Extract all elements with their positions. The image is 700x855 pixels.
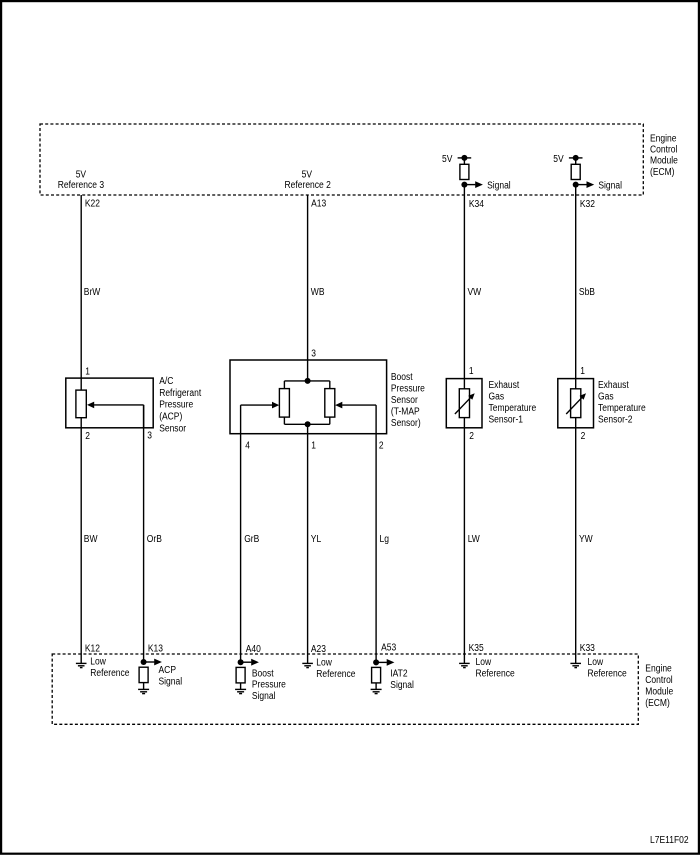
svg-text:Sensor): Sensor) xyxy=(391,418,421,429)
svg-text:Low: Low xyxy=(588,657,604,668)
net 5V Reference 3 label xyxy=(58,170,105,191)
svg-text:K33: K33 xyxy=(580,643,595,654)
svg-text:Signal: Signal xyxy=(252,691,276,702)
svg-text:GrB: GrB xyxy=(244,534,259,545)
svg-text:Temperature: Temperature xyxy=(489,403,537,414)
svg-text:Gas: Gas xyxy=(598,392,614,403)
ACP sensor name label xyxy=(159,376,201,434)
svg-text:5V: 5V xyxy=(76,170,87,181)
svg-text:Sensor-1: Sensor-1 xyxy=(489,415,524,426)
svg-text:K13: K13 xyxy=(148,643,163,654)
junction A53 signal arrow xyxy=(373,659,394,666)
ECM bottom label xyxy=(645,664,673,710)
svg-text:4: 4 xyxy=(245,440,250,451)
svg-text:Reference: Reference xyxy=(476,669,516,680)
K13 ACP Signal label xyxy=(159,665,183,688)
Exhaust Gas Temperature Sensor-2 box xyxy=(558,379,594,428)
svg-text:Signal: Signal xyxy=(487,180,511,191)
svg-text:Low: Low xyxy=(90,657,106,668)
wire ACP pin 3 to K13 xyxy=(143,405,145,662)
svg-text:Exhaust: Exhaust xyxy=(598,380,629,391)
svg-text:2: 2 xyxy=(85,431,90,442)
svg-text:Lg: Lg xyxy=(380,534,390,545)
ECM top dashed box xyxy=(40,124,643,195)
junction K34 signal arrow xyxy=(461,180,510,191)
svg-text:2: 2 xyxy=(469,431,474,442)
svg-text:Gas: Gas xyxy=(489,392,505,403)
svg-text:(ACP): (ACP) xyxy=(159,412,182,423)
svg-text:2: 2 xyxy=(379,440,384,451)
svg-text:BW: BW xyxy=(84,534,98,545)
junction A40 signal arrow xyxy=(238,659,259,666)
svg-text:Boost: Boost xyxy=(391,372,413,383)
resistor at A40 xyxy=(236,667,245,689)
resistor at K13 xyxy=(139,667,148,689)
A23 Low Reference label xyxy=(316,658,356,681)
ground at K12 xyxy=(76,663,87,667)
svg-text:LW: LW xyxy=(468,534,481,545)
svg-text:(ECM): (ECM) xyxy=(650,167,675,178)
resistor at A53 xyxy=(372,667,381,689)
ground below A40 resistor xyxy=(235,689,246,693)
A40 Boost Pressure Signal label xyxy=(252,668,286,702)
A/C Refrigerant Pressure (ACP) Sensor box xyxy=(66,378,153,428)
K33 Low Reference label xyxy=(588,657,628,680)
svg-text:Engine: Engine xyxy=(645,664,672,675)
svg-text:5V: 5V xyxy=(553,154,564,165)
wire Boost pin 2 to A53 xyxy=(375,434,377,663)
wire EGT2 pin 2 to K33 xyxy=(575,418,577,664)
Boost Pressure Sensor (T-MAP) box xyxy=(230,360,387,434)
svg-text:Refrigerant: Refrigerant xyxy=(159,388,201,399)
svg-text:5V: 5V xyxy=(442,154,453,165)
svg-text:ACP: ACP xyxy=(159,665,177,676)
A53 IAT2 Signal label xyxy=(390,669,414,692)
svg-text:A/C: A/C xyxy=(159,376,173,387)
svg-text:Pressure: Pressure xyxy=(391,384,425,395)
wire K34 to EGT1 pin 1 xyxy=(463,185,465,389)
svg-text:K32: K32 xyxy=(580,199,595,210)
svg-text:BrW: BrW xyxy=(84,287,101,298)
svg-text:K22: K22 xyxy=(85,199,100,210)
svg-text:1: 1 xyxy=(311,440,316,451)
svg-text:YL: YL xyxy=(311,534,322,545)
svg-text:5V: 5V xyxy=(302,170,313,181)
svg-text:Exhaust: Exhaust xyxy=(489,380,520,391)
svg-text:Sensor: Sensor xyxy=(159,423,186,434)
svg-text:Sensor-2: Sensor-2 xyxy=(598,415,633,426)
ground below K13 resistor xyxy=(138,689,149,693)
svg-text:Reference 3: Reference 3 xyxy=(58,180,105,191)
svg-text:A13: A13 xyxy=(311,199,326,210)
wire K32 to EGT2 pin 1 xyxy=(575,185,577,389)
svg-text:(ECM): (ECM) xyxy=(645,698,670,709)
ground below A53 resistor xyxy=(371,689,382,693)
ground at K35 xyxy=(459,663,470,667)
wire EGT1 pin 2 to K35 xyxy=(463,418,465,664)
K35 Low Reference label xyxy=(476,657,516,680)
svg-text:Reference: Reference xyxy=(90,668,130,679)
svg-text:Module: Module xyxy=(645,687,673,698)
svg-text:K35: K35 xyxy=(469,643,484,654)
wire ACP pin 2 to K12 xyxy=(80,418,82,664)
svg-text:SbB: SbB xyxy=(579,287,595,298)
svg-text:Pressure: Pressure xyxy=(159,400,193,411)
svg-text:A53: A53 xyxy=(381,643,396,654)
wire A13 to Boost pin 3 xyxy=(307,195,309,381)
svg-text:VW: VW xyxy=(468,287,482,298)
svg-text:WB: WB xyxy=(311,287,325,298)
svg-text:Temperature: Temperature xyxy=(598,403,646,414)
ground at K33 xyxy=(570,663,581,667)
K12 Low Reference label xyxy=(90,657,130,680)
svg-text:Engine: Engine xyxy=(650,133,677,144)
svg-text:Low: Low xyxy=(316,658,332,669)
svg-text:OrB: OrB xyxy=(147,534,162,545)
svg-text:3: 3 xyxy=(147,431,152,442)
Boost sensor name label xyxy=(391,372,425,429)
EGT1 name label xyxy=(489,380,537,426)
junction K32 signal arrow xyxy=(573,180,622,191)
wire Boost pin 1 to A23 xyxy=(307,434,309,664)
wire K22 to ACP pin 1 xyxy=(80,195,82,390)
svg-text:Signal: Signal xyxy=(598,180,622,191)
EGT2 name label xyxy=(598,380,646,426)
pull-up resistor (K32) with 5V supply xyxy=(553,154,582,179)
wire Boost pin 4 to A40 xyxy=(240,434,242,663)
svg-text:2: 2 xyxy=(581,431,586,442)
svg-text:IAT2: IAT2 xyxy=(390,669,408,680)
svg-text:K34: K34 xyxy=(469,199,484,210)
svg-text:Control: Control xyxy=(645,675,672,686)
svg-text:Reference: Reference xyxy=(588,669,628,680)
svg-text:1: 1 xyxy=(580,366,585,377)
ECM top label xyxy=(650,133,678,178)
svg-text:3: 3 xyxy=(311,348,316,359)
net 5V Reference 2 label xyxy=(285,170,332,191)
svg-text:Control: Control xyxy=(650,145,677,156)
svg-text:Signal: Signal xyxy=(159,677,183,688)
Exhaust Gas Temperature Sensor-1 box xyxy=(446,379,482,428)
svg-text:Reference: Reference xyxy=(316,669,356,680)
ground at A23 xyxy=(302,663,313,667)
svg-text:A40: A40 xyxy=(246,644,261,655)
junction K13 ACP signal arrow xyxy=(141,659,162,666)
svg-text:L7E11F02: L7E11F02 xyxy=(650,835,689,846)
svg-text:Sensor: Sensor xyxy=(391,395,418,406)
svg-text:Module: Module xyxy=(650,156,678,167)
svg-text:Boost: Boost xyxy=(252,668,274,679)
svg-text:Low: Low xyxy=(476,657,492,668)
svg-text:K12: K12 xyxy=(85,643,100,654)
svg-text:Pressure: Pressure xyxy=(252,680,286,691)
ECM bottom dashed box xyxy=(52,654,638,724)
pull-up resistor (K34) with 5V supply xyxy=(442,154,471,179)
svg-text:Reference 2: Reference 2 xyxy=(285,180,332,191)
svg-text:1: 1 xyxy=(85,366,90,377)
svg-text:A23: A23 xyxy=(311,644,326,655)
svg-text:YW: YW xyxy=(579,534,593,545)
svg-text:(T-MAP: (T-MAP xyxy=(391,407,420,418)
svg-text:1: 1 xyxy=(469,366,474,377)
svg-text:Signal: Signal xyxy=(390,680,414,691)
